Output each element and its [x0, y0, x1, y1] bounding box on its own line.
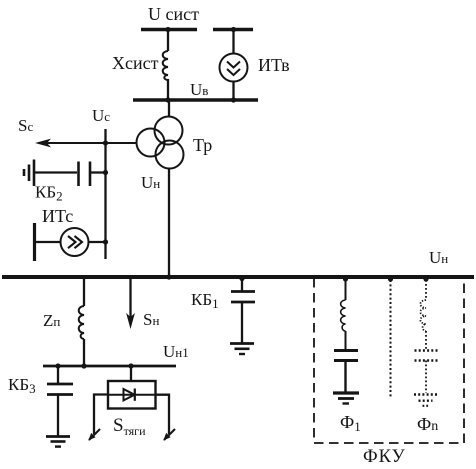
junction main bus / dotted branch	[388, 276, 393, 281]
junction KB2/Us	[103, 170, 108, 175]
ground KB3	[46, 435, 70, 438]
wire from Xsist to Uv bus	[167, 79, 169, 101]
svg-text:ИТс: ИТс	[42, 206, 73, 226]
inductor F1	[341, 300, 346, 331]
junction Uv right	[231, 97, 236, 102]
svg-text:Sн: Sн	[143, 310, 159, 329]
node Us vertical wire	[104, 129, 106, 259]
junction lower bus / KB3	[55, 363, 60, 368]
current source ITs	[61, 228, 89, 256]
wire through box	[108, 394, 156, 396]
capacitor Fn dotted	[415, 349, 438, 352]
svg-text:Uн1: Uн1	[163, 342, 189, 361]
capacitor F1	[334, 349, 358, 352]
bus Uv	[133, 98, 258, 102]
svg-text:ИТв: ИТв	[258, 55, 290, 75]
ground (sideways) at KB2	[23, 169, 26, 176]
junction Us/Ss	[103, 140, 108, 145]
bus Un1 (lower)	[43, 365, 176, 368]
bus top-right	[213, 28, 253, 32]
dashed enclosure FKU	[313, 278, 315, 443]
junction main bus / KB1	[239, 276, 244, 281]
wire from top-left bus to Xsist	[167, 30, 169, 52]
svg-text:U сист: U сист	[148, 4, 199, 24]
junction ITs/Us	[103, 239, 108, 244]
junction main bus / F1	[343, 276, 348, 281]
junction main bus / Fn	[423, 276, 428, 281]
svg-text:Тр: Тр	[193, 135, 212, 155]
transformer Tr (three-winding)	[155, 117, 183, 145]
wire Zp to lower bus	[83, 339, 85, 366]
dotted continuation branch	[390, 280, 392, 397]
wire lower bus to KB3	[57, 366, 59, 384]
wire ground to KB2	[35, 171, 77, 173]
wire lower bus to Styagi box	[130, 366, 132, 381]
wire main bus to KB1	[241, 277, 243, 291]
wire Fn inductor to capacitor dotted	[425, 331, 427, 350]
wire F1 inductor to capacitor	[345, 331, 347, 350]
junction on top-right bus	[231, 27, 236, 32]
rail arrow left	[89, 429, 100, 440]
arrow Sn (load)	[129, 277, 131, 320]
rectifier box Styagi	[108, 381, 156, 409]
arrow Ss (wire from transformer left winding, arrowhead left)	[44, 142, 137, 144]
inductor Xsist	[163, 51, 168, 80]
svg-text:Хсист: Хсист	[112, 53, 159, 73]
inductor Fn dotted	[420, 300, 426, 331]
capacitor KB3	[47, 383, 73, 386]
svg-text:Uс: Uс	[92, 106, 110, 125]
wire Uv bus to transformer	[168, 100, 170, 117]
ground KB1	[230, 342, 254, 345]
wire transformer to main bus	[168, 169, 170, 277]
wire from ITv to Uv bus	[232, 82, 234, 100]
left lead from box	[94, 395, 108, 435]
wire ITs to Us node	[89, 241, 106, 243]
svg-text:ФКУ: ФКУ	[363, 447, 406, 467]
current source ITv	[220, 54, 248, 82]
svg-text:Uн: Uн	[429, 248, 448, 267]
wire KB3 to ground	[57, 395, 59, 437]
wire from top-right bus to ITv	[232, 30, 234, 54]
junction main bus / transformer	[166, 274, 171, 279]
wire main bus to Zp	[83, 277, 85, 306]
capacitor KB1	[231, 290, 255, 293]
ground F1	[333, 391, 359, 394]
filter Fn (dotted): wire from bus	[425, 280, 427, 300]
junction lower bus / Zp	[81, 363, 86, 368]
filter F1: wire from bus	[345, 277, 347, 300]
junction on top-left bus	[165, 27, 170, 32]
junction lower bus / Styagi	[128, 363, 133, 368]
bus main Un	[2, 275, 474, 279]
inductor Zp	[79, 306, 84, 339]
right lead from box	[156, 395, 170, 434]
wire Fn capacitor to ground dotted	[425, 361, 427, 394]
rail arrow right	[164, 429, 175, 440]
junction Uv left	[165, 97, 170, 102]
bus top-left (U sist)	[141, 28, 197, 32]
wire KB1 to ground	[241, 302, 243, 343]
svg-text:Uн: Uн	[141, 173, 160, 192]
wire KB2 to Us node	[91, 171, 106, 173]
ground Fn dotted	[414, 393, 437, 396]
wire F1 capacitor to ground	[344, 361, 346, 393]
svg-text:Sс: Sс	[18, 116, 33, 135]
diode VD	[124, 389, 135, 400]
wire bar to ITs	[35, 241, 61, 243]
svg-text:Zп: Zп	[43, 311, 60, 330]
svg-text:Uв: Uв	[190, 80, 208, 99]
terminal bar ITs	[33, 223, 36, 261]
capacitor KB2	[77, 162, 80, 187]
